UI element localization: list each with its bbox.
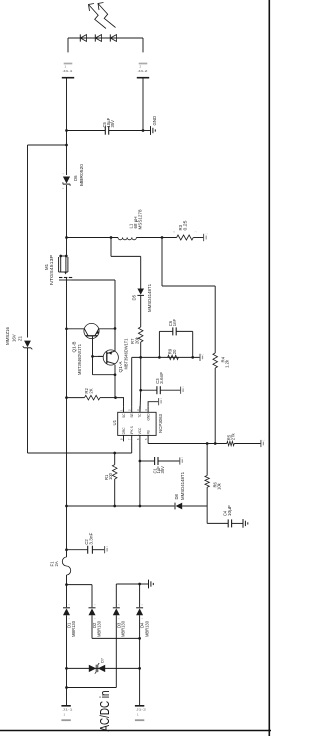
wire main rail M1 to L1 tap	[66, 238, 68, 257]
wire TC tap dot	[139, 389, 142, 392]
wire C6 loop right upper	[159, 330, 172, 332]
svg-text:GND: GND	[146, 413, 150, 421]
svg-text:J1-1: J1-1	[63, 708, 74, 712]
wire R2 bottom	[100, 397, 116, 399]
svg-text:3.3nF: 3.3nF	[89, 532, 94, 544]
connector TP-SE pin	[199, 354, 201, 361]
svg-text:16V: 16V	[11, 334, 16, 342]
wire main rail Q1B dot	[65, 327, 68, 330]
svg-text:GND: GND	[152, 116, 157, 126]
wire C5 lower	[109, 130, 143, 132]
wire C1 lower	[158, 460, 180, 462]
wire L1 tap1 left	[110, 238, 112, 257]
wire TC cap lower	[160, 389, 180, 391]
wire Q1A base tap dot	[91, 355, 94, 358]
wire C1 upper	[140, 460, 155, 462]
wire to pin7	[131, 441, 133, 453]
wire pin5 stub run	[147, 441, 149, 443]
connector J1-2 module side	[135, 719, 144, 721]
wire Q1B base left	[92, 336, 94, 375]
svg-text:DRC: DRC	[122, 427, 126, 435]
connector TP-TC pin	[180, 387, 182, 394]
led LED2	[94, 34, 96, 41]
wire main rail VCC tap to R2 tap	[66, 398, 68, 506]
wire R4 run left	[214, 368, 216, 444]
wire R4 riser	[162, 285, 215, 287]
wire main rail L1 tap to D6	[66, 185, 68, 238]
wire main rail L1 dot	[65, 236, 68, 239]
led LED3	[109, 34, 111, 41]
svg-text:2A: 2A	[54, 561, 59, 566]
svg-text:3.6nF: 3.6nF	[159, 371, 164, 383]
wire main rail VCC dot	[65, 505, 68, 508]
diode D2	[89, 608, 96, 615]
wire VCC corner	[206, 506, 208, 523]
diode D1	[63, 608, 70, 615]
svg-text:0.25: 0.25	[183, 220, 188, 231]
wire main rail D6 to Z1 tap	[66, 145, 68, 175]
wire L1 tap2 dot	[161, 236, 164, 239]
wire SE crossing dot	[139, 356, 142, 359]
svg-text:D8: D8	[174, 493, 179, 499]
wire lower LED rail	[142, 79, 144, 131]
wire D3 anode drop	[67, 687, 117, 689]
wire bridge gnd stem	[140, 583, 149, 585]
wire main rail fuse to C2 tap	[66, 506, 68, 557]
diode D4	[136, 608, 143, 615]
wire Q1B collector	[67, 328, 85, 330]
svg-text:20: 20	[172, 349, 177, 354]
wire D1 cathode tap	[66, 585, 68, 608]
wire R1 tap dot	[113, 452, 116, 455]
transistor Q1-A	[103, 350, 118, 365]
svg-text:27k: 27k	[231, 433, 236, 441]
wire FB bus	[148, 443, 227, 445]
connector J1-2 board side	[135, 705, 144, 707]
svg-text:TC: TC	[138, 413, 142, 418]
wire C6 loop top	[158, 331, 160, 357]
capacitor C4	[227, 519, 229, 527]
op-amp U1 body	[118, 412, 156, 435]
svg-text:SE: SE	[130, 413, 134, 417]
wire AC1 run	[66, 615, 68, 705]
wire C4 upper	[207, 522, 228, 524]
svg-text:NTGS4513P: NTGS4513P	[49, 255, 54, 285]
svg-text:MBR130: MBR130	[96, 620, 101, 637]
svg-text:35V: 35V	[110, 120, 115, 128]
connector J4-1 module side	[64, 63, 73, 65]
wire Z1 rail riser	[28, 144, 67, 146]
wire U1 left stubs	[123, 435, 125, 441]
wire SE loop top dot	[158, 356, 161, 359]
wire L1 top	[67, 237, 119, 239]
wire R6 left	[206, 487, 208, 506]
wire pin2 run	[131, 357, 133, 406]
wire pin6 run	[139, 441, 141, 506]
svg-text:D6: D6	[73, 175, 78, 181]
wire nodeX dot	[114, 396, 117, 399]
wire gnd stem	[143, 130, 151, 132]
wire R1 left	[114, 479, 116, 506]
wire TC run to pin3	[139, 390, 142, 412]
wire main rail R2 dot	[65, 396, 68, 399]
svg-text:IPK S: IPK S	[130, 426, 134, 434]
svg-text:MBR0520: MBR0520	[79, 163, 84, 186]
resistor R6	[205, 476, 209, 488]
wire Q1A left leg	[114, 365, 116, 398]
svg-text:10k: 10k	[217, 482, 222, 490]
inductor L1	[118, 238, 123, 240]
svg-text:J1-2: J1-2	[136, 708, 147, 712]
wire Z1 rail right	[27, 145, 29, 338]
svg-text:MMSZ16: MMSZ16	[5, 326, 10, 345]
wire FB R4 dot	[214, 442, 217, 445]
wire R2 top	[67, 397, 85, 399]
connector TP-GND pin	[158, 398, 160, 405]
transistor Q1-B	[84, 323, 99, 338]
wire main rail C2 dot	[65, 548, 68, 551]
wire D7 vert	[67, 667, 140, 669]
svg-text:MBT3946DW1T1: MBT3946DW1T1	[124, 338, 129, 370]
wire bridge railB vert	[116, 583, 139, 585]
connector TP-C2 pin	[104, 546, 106, 553]
wire J4-1 module lead	[67, 38, 69, 52]
ground bridge gnd	[148, 580, 150, 589]
svg-text:MBR130: MBR130	[144, 620, 149, 637]
wire R7 to SE crossing	[140, 342, 142, 390]
wire FB R6 dot	[206, 442, 209, 445]
wire Q1B emitter	[99, 328, 115, 330]
resistor R1	[112, 465, 117, 479]
wire main rail Z1 dot	[65, 144, 68, 147]
wire rail to bridge	[66, 575, 68, 585]
wire L1 to R3	[136, 237, 176, 239]
wire LED string	[68, 37, 143, 39]
wire Q1B base down	[93, 374, 116, 376]
diode D8	[176, 503, 183, 510]
wire M1 gate to Q1 node	[114, 280, 116, 329]
connector J4-1 board side	[62, 77, 74, 79]
wire main rail R2 tap to Q1B tap	[66, 329, 68, 398]
wire D2 anode drop	[92, 637, 140, 639]
capacitor C5	[104, 126, 106, 134]
svg-text:MBR130: MBR130	[121, 620, 126, 637]
wire bridge railA vert	[67, 584, 93, 586]
wire C1 tap dot	[139, 460, 142, 463]
wire AC2 run	[139, 615, 141, 705]
wire AC1 corner dot	[65, 686, 68, 689]
wire SE vertical	[132, 356, 200, 358]
connector TP-C1 pin	[179, 457, 181, 464]
wire U1 right stubs	[123, 406, 125, 412]
wire AC2 D2 dot	[138, 637, 141, 640]
connector J1-1 board side	[61, 705, 70, 707]
wire light arrow 2	[98, 4, 116, 28]
diode D6	[63, 177, 70, 184]
wire pin1 to nodeX	[116, 398, 124, 407]
diode D7 TVS	[89, 665, 96, 672]
connector J5 pin	[203, 234, 205, 241]
svg-text:FB: FB	[146, 430, 150, 434]
wire C5 upper	[67, 130, 106, 132]
svg-text:MBR130: MBR130	[71, 620, 76, 637]
transistor M1	[58, 257, 60, 272]
capacitor C6	[172, 327, 174, 335]
wire C2 lower	[92, 549, 104, 551]
wire main rail Z1 tap to C5 tap	[66, 131, 68, 146]
wire L1 tap1 down	[111, 255, 141, 257]
resistor R5	[227, 441, 234, 445]
wire D5 run right	[140, 256, 142, 288]
svg-text:J4-1: J4-1	[63, 69, 74, 73]
svg-text:10µF: 10µF	[227, 505, 232, 516]
svg-text:AC/DC in: AC/DC in	[97, 691, 112, 732]
svg-text:MMSD4148T1: MMSD4148T1	[180, 471, 185, 500]
wire bridge railB dot	[138, 583, 141, 586]
svg-text:NCP3063: NCP3063	[158, 413, 163, 433]
connector TP-FB pin	[260, 440, 262, 447]
svg-text:2K: 2K	[88, 388, 93, 393]
wire D3 cathode tap	[115, 584, 117, 607]
svg-text:35V: 35V	[160, 466, 165, 474]
wire J4-2 module lead	[142, 38, 144, 52]
wire bridge railA dot	[65, 583, 68, 586]
wire R4 run right	[214, 286, 216, 353]
wire D4 cathode tap	[139, 584, 141, 607]
wire light arrow 1	[89, 5, 107, 29]
svg-text:MMSD4148T1: MMSD4148T1	[147, 283, 152, 312]
wire M1 gate down	[72, 279, 116, 281]
wire AC1 D7 dot	[65, 667, 68, 670]
wire R4 to L1 tap2	[161, 238, 163, 287]
resistor R3	[177, 235, 194, 240]
wire C6 loop right lower	[176, 330, 193, 332]
svg-text:U1: U1	[112, 419, 117, 425]
wire pin4 gnd run	[148, 402, 159, 407]
wire VCC bus lower	[182, 505, 207, 507]
wire Z1 rail left	[27, 348, 29, 453]
resistor R7	[138, 327, 143, 342]
svg-text:20k: 20k	[134, 336, 139, 344]
wire main rail C5 tap to J4-1	[66, 79, 68, 131]
svg-text:1nF: 1nF	[172, 319, 177, 327]
wire D2 cathode tap	[91, 585, 93, 608]
capacitor C2	[87, 546, 89, 554]
wire AC2 D7 dot	[138, 667, 141, 670]
svg-text:VCC: VCC	[138, 427, 142, 434]
diode D5	[137, 289, 144, 295]
wire Q1A right leg	[114, 329, 116, 352]
wire R5 to TP	[234, 443, 261, 445]
wire SE loop bottom dot	[191, 356, 194, 359]
fuse F1	[62, 557, 70, 575]
connector J4-2 board side	[137, 77, 149, 79]
zener Z1	[24, 341, 31, 348]
connector J4-2 module side	[139, 63, 148, 65]
wire R1 right	[114, 453, 116, 465]
wire VCC pin6 dot	[139, 505, 142, 508]
wire Q1A base down	[93, 355, 104, 357]
wire TC cap upper	[141, 389, 157, 391]
wire main rail C5 dot	[65, 129, 68, 132]
connector J1-1 module side	[61, 719, 70, 721]
svg-text:MBT3946DW1T1: MBT3946DW1T1	[77, 343, 82, 375]
wire C5 gnd dot	[142, 129, 145, 132]
wire D2 anode run	[91, 615, 93, 638]
wire L1 tap1 dot	[110, 236, 113, 239]
svg-text:SC: SC	[122, 413, 126, 418]
wire Q1 gate node dot	[114, 327, 117, 330]
wire VCC bus upper	[67, 505, 175, 507]
wire D5 to R7	[140, 295, 142, 327]
svg-text:100: 100	[108, 472, 113, 480]
resistor R9	[168, 355, 179, 359]
led LED1	[79, 34, 81, 41]
svg-text:D5: D5	[131, 294, 136, 300]
svg-text:D7: D7	[101, 658, 105, 663]
wire Q1A base-tie dot	[114, 373, 117, 376]
resistor R2	[85, 395, 101, 400]
svg-text:Q1-A: Q1-A	[118, 361, 123, 372]
wire main rail Q1B to M1	[66, 278, 68, 329]
svg-text:1.2k: 1.2k	[225, 359, 230, 368]
wire C6 loop bottom	[192, 331, 194, 357]
svg-text:J4-2: J4-2	[138, 69, 149, 73]
capacitor C1	[154, 457, 156, 465]
wire C2 upper	[67, 549, 88, 551]
wire D3 anode run	[115, 615, 117, 687]
capacitor C3	[156, 386, 158, 394]
ground output gnd	[150, 126, 152, 135]
svg-text:Z1: Z1	[18, 335, 23, 341]
ground C4 gnd	[242, 519, 244, 528]
resistor R4	[213, 353, 218, 368]
wire VCC R1 dot	[113, 505, 116, 508]
wire R3 to J5	[193, 237, 203, 239]
wire R6 right	[206, 444, 208, 476]
wire C4 lower	[232, 522, 243, 524]
svg-text:Q1-B: Q1-B	[71, 341, 76, 352]
svg-text:MSS1278: MSS1278	[138, 209, 143, 230]
wire left fb drop	[28, 452, 132, 454]
diode D3	[113, 608, 120, 615]
